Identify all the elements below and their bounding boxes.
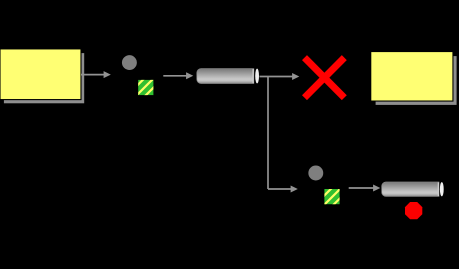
transition T1 state circle: [122, 55, 137, 70]
wire arc4 vertical branch down: [267, 77, 269, 190]
wire arc2: T1 to task cylinder A1: [163, 75, 187, 77]
shadow of place P2 (right yellow box): [376, 56, 457, 105]
transition T1 hatched square: [126, 78, 173, 97]
arrowhead arc2: [186, 72, 193, 79]
task cylinder A2 right edge highlight: [438, 182, 439, 196]
transition T2 state circle: [308, 166, 323, 181]
wire arc1: P1 to transition T1: [81, 74, 105, 76]
arrowhead arc3: [292, 73, 299, 80]
red token dot: [405, 202, 422, 219]
task cylinder A1 body: [197, 69, 254, 84]
transition T2 hatched square: [314, 187, 361, 206]
arrowhead arc4: [291, 186, 298, 193]
task cylinder A1 right edge highlight: [253, 69, 254, 83]
shadow of place P1 (left yellow box): [4, 53, 84, 103]
wire arc5: T2 to task cylinder A2: [349, 187, 374, 189]
task cylinder A1 end cap: [255, 69, 259, 84]
task cylinder A2 body: [382, 182, 439, 196]
wire arc3: A1 to crossed arrow (horizontal): [260, 76, 294, 78]
red X cancellation mark: [305, 58, 345, 98]
place P2 (right yellow box): [371, 52, 453, 102]
arrowhead arc5: [373, 185, 380, 192]
arrowhead arc1: [104, 71, 111, 78]
wire arc4 horizontal to transition T2: [268, 188, 292, 190]
place P1 (left yellow box): [0, 49, 81, 100]
task cylinder A2 end cap: [440, 182, 444, 196]
